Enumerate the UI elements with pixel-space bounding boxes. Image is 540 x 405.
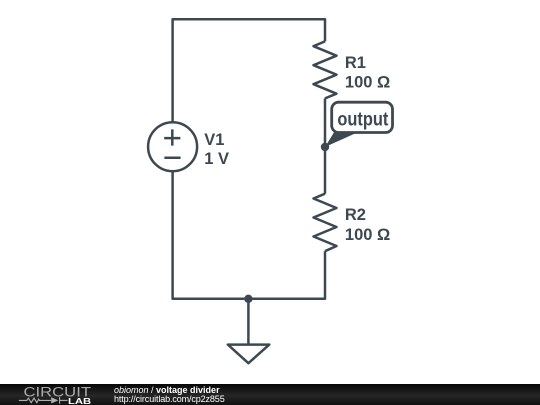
svg-text:V1: V1 — [204, 131, 224, 149]
svg-text:100 Ω: 100 Ω — [345, 74, 390, 92]
svg-text:LAB: LAB — [68, 396, 91, 405]
svg-text:output: output — [337, 110, 388, 131]
svg-text:1 V: 1 V — [204, 150, 229, 168]
svg-text:100 Ω: 100 Ω — [345, 226, 390, 244]
svg-text:R1: R1 — [345, 54, 366, 72]
svg-text:R2: R2 — [345, 206, 366, 224]
